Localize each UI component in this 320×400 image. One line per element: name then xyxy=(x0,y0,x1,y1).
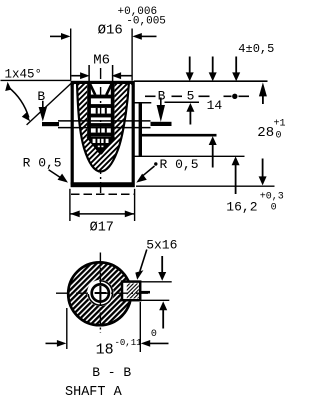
svg-text:SHAFT A: SHAFT A xyxy=(65,385,123,400)
svg-text:Ø16: Ø16 xyxy=(98,23,123,39)
svg-text:18: 18 xyxy=(96,342,114,359)
svg-text:0: 0 xyxy=(271,202,277,213)
dimension Ø16 arrow left xyxy=(50,35,62,37)
section arrow B left xyxy=(42,101,44,109)
cutting plane end bar left xyxy=(42,122,59,126)
dimension 18 extension line right xyxy=(139,302,141,352)
thread rung 1 xyxy=(87,95,114,99)
svg-text:1x45°: 1x45° xyxy=(5,67,43,81)
svg-text:28: 28 xyxy=(257,125,274,141)
keyway bottom extension line xyxy=(140,299,169,301)
centerline horizontal (bottom view) xyxy=(56,292,150,294)
cutting plane upper line across body xyxy=(58,120,151,122)
dimension 18 arrow right xyxy=(141,340,151,347)
wire break-line outer boundary of section band xyxy=(77,83,129,172)
leader 5x16 xyxy=(140,250,147,272)
key tab outer face xyxy=(139,102,142,156)
cutting plane lower line across body xyxy=(58,127,151,129)
svg-text:4±0,5: 4±0,5 xyxy=(238,42,274,56)
svg-text:5: 5 xyxy=(187,89,195,104)
dimension M6 arrow left xyxy=(71,75,81,77)
svg-text:Ø17: Ø17 xyxy=(90,220,114,235)
dimension M6 extension lines above face xyxy=(88,65,90,84)
svg-text:14: 14 xyxy=(207,98,223,113)
svg-text:B: B xyxy=(158,89,166,104)
tapped hole minor circle xyxy=(92,284,109,301)
chamfer edge top-left xyxy=(71,82,76,87)
thread rung 5 xyxy=(87,133,114,137)
dimension arrow up to key bottom (16,2 dim) xyxy=(232,156,240,165)
section arrow B right xyxy=(160,98,162,107)
node centerline vertical (front view) xyxy=(100,68,102,196)
dimension Ø16 extension line left xyxy=(70,29,72,81)
keyway pocket xyxy=(122,282,140,301)
keyway top extension line xyxy=(140,281,171,283)
dimension 18 arrow left xyxy=(46,342,59,344)
centerline vertical (bottom view) xyxy=(99,253,101,334)
key tab top edge xyxy=(134,102,151,104)
body outline xyxy=(72,82,133,185)
leader R0,5 right xyxy=(142,166,155,177)
angle dimension arc xyxy=(8,87,29,118)
dimension arrow up to y135 line (14 dim) xyxy=(209,136,217,145)
angle arc arrowhead top xyxy=(5,82,11,91)
thread rung 2 xyxy=(87,104,114,108)
wire top-face extension line left of body xyxy=(1,79,71,81)
svg-text:0: 0 xyxy=(276,130,282,141)
keyway hatch xyxy=(127,283,139,298)
dimension Ø17 extension line left xyxy=(69,189,71,221)
countersink edge right xyxy=(106,84,111,95)
thread major arc (3/4) xyxy=(88,281,112,305)
svg-text:R 0,5: R 0,5 xyxy=(160,157,199,172)
drill cone right edge xyxy=(101,137,115,154)
thread major rail left (M6 hole) xyxy=(87,84,91,137)
svg-text:-0,005: -0,005 xyxy=(126,16,166,28)
dimension Ø16 arrow right xyxy=(132,33,142,40)
svg-text:5x16: 5x16 xyxy=(146,238,177,253)
dimension Ø17 line and arrows xyxy=(70,213,134,215)
bottom face thickening xyxy=(71,182,135,184)
thread rung 4 xyxy=(87,123,114,127)
chamfer edge top-right xyxy=(129,82,134,87)
thread minor rail right segments xyxy=(105,108,107,114)
svg-text:B - B: B - B xyxy=(92,365,131,380)
hole cross mark xyxy=(95,292,107,294)
thread minor rail left segments xyxy=(96,108,98,114)
wire key top extension right segment xyxy=(165,101,200,103)
dimension M6 arrow right xyxy=(112,72,122,79)
hatch section band (front view) xyxy=(77,83,129,172)
dimension Ø17 extension line right xyxy=(134,189,136,221)
dimension arrow up to key top (5 dim) xyxy=(186,103,194,112)
wire top-face extension line right of body xyxy=(134,80,268,82)
cutting plane end bar right xyxy=(151,122,172,126)
countersink edge left xyxy=(90,84,95,95)
dimension arrow down at top face (14 dim) xyxy=(212,57,214,75)
angle arc arrowhead bottom xyxy=(22,112,30,121)
hidden dashed line below bottom face xyxy=(71,193,135,195)
wire feature line y135 xyxy=(141,134,217,137)
chamfer construction diagonal xyxy=(27,82,73,125)
svg-text:-0,11: -0,11 xyxy=(115,338,142,348)
svg-text:16,2: 16,2 xyxy=(226,200,257,215)
dimension Ø16 extension line right xyxy=(131,29,133,81)
svg-text:M6: M6 xyxy=(93,52,110,68)
svg-text:B: B xyxy=(37,89,45,104)
dimension arrow down at top face (5 dim) xyxy=(189,57,191,75)
dimension arrow down to keyway top xyxy=(161,256,163,273)
node dot terminator of dimension 4 xyxy=(232,94,237,99)
wire bottom-face extension line right of body xyxy=(136,185,275,187)
dimension arrow down at top face (4 dim) xyxy=(235,57,237,75)
key tab bottom edge / extension line xyxy=(134,155,245,157)
svg-text:R 0,5: R 0,5 xyxy=(23,156,62,171)
dimension arrow up to keyway bottom xyxy=(159,301,167,310)
dimension 18 extension line left xyxy=(66,308,68,349)
leader R0,5 left xyxy=(49,170,63,179)
shaft circle hatched xyxy=(68,262,131,325)
drill cone tapered fill xyxy=(87,137,114,154)
svg-text:0: 0 xyxy=(151,329,157,340)
thread rung 3 xyxy=(87,114,114,118)
dimension arrow down to bottom face (28 dim) xyxy=(262,159,264,178)
svg-text:+0,3: +0,3 xyxy=(260,192,284,203)
dash line with B and 5 labels (plane trace) xyxy=(145,95,156,97)
svg-text:+1: +1 xyxy=(274,118,286,129)
white halo around center hole xyxy=(87,280,114,307)
thread major rail right (M6 hole) xyxy=(111,84,115,137)
drill cone left edge xyxy=(87,137,100,154)
dimension arrow up to top face (28 dim) xyxy=(259,82,267,96)
